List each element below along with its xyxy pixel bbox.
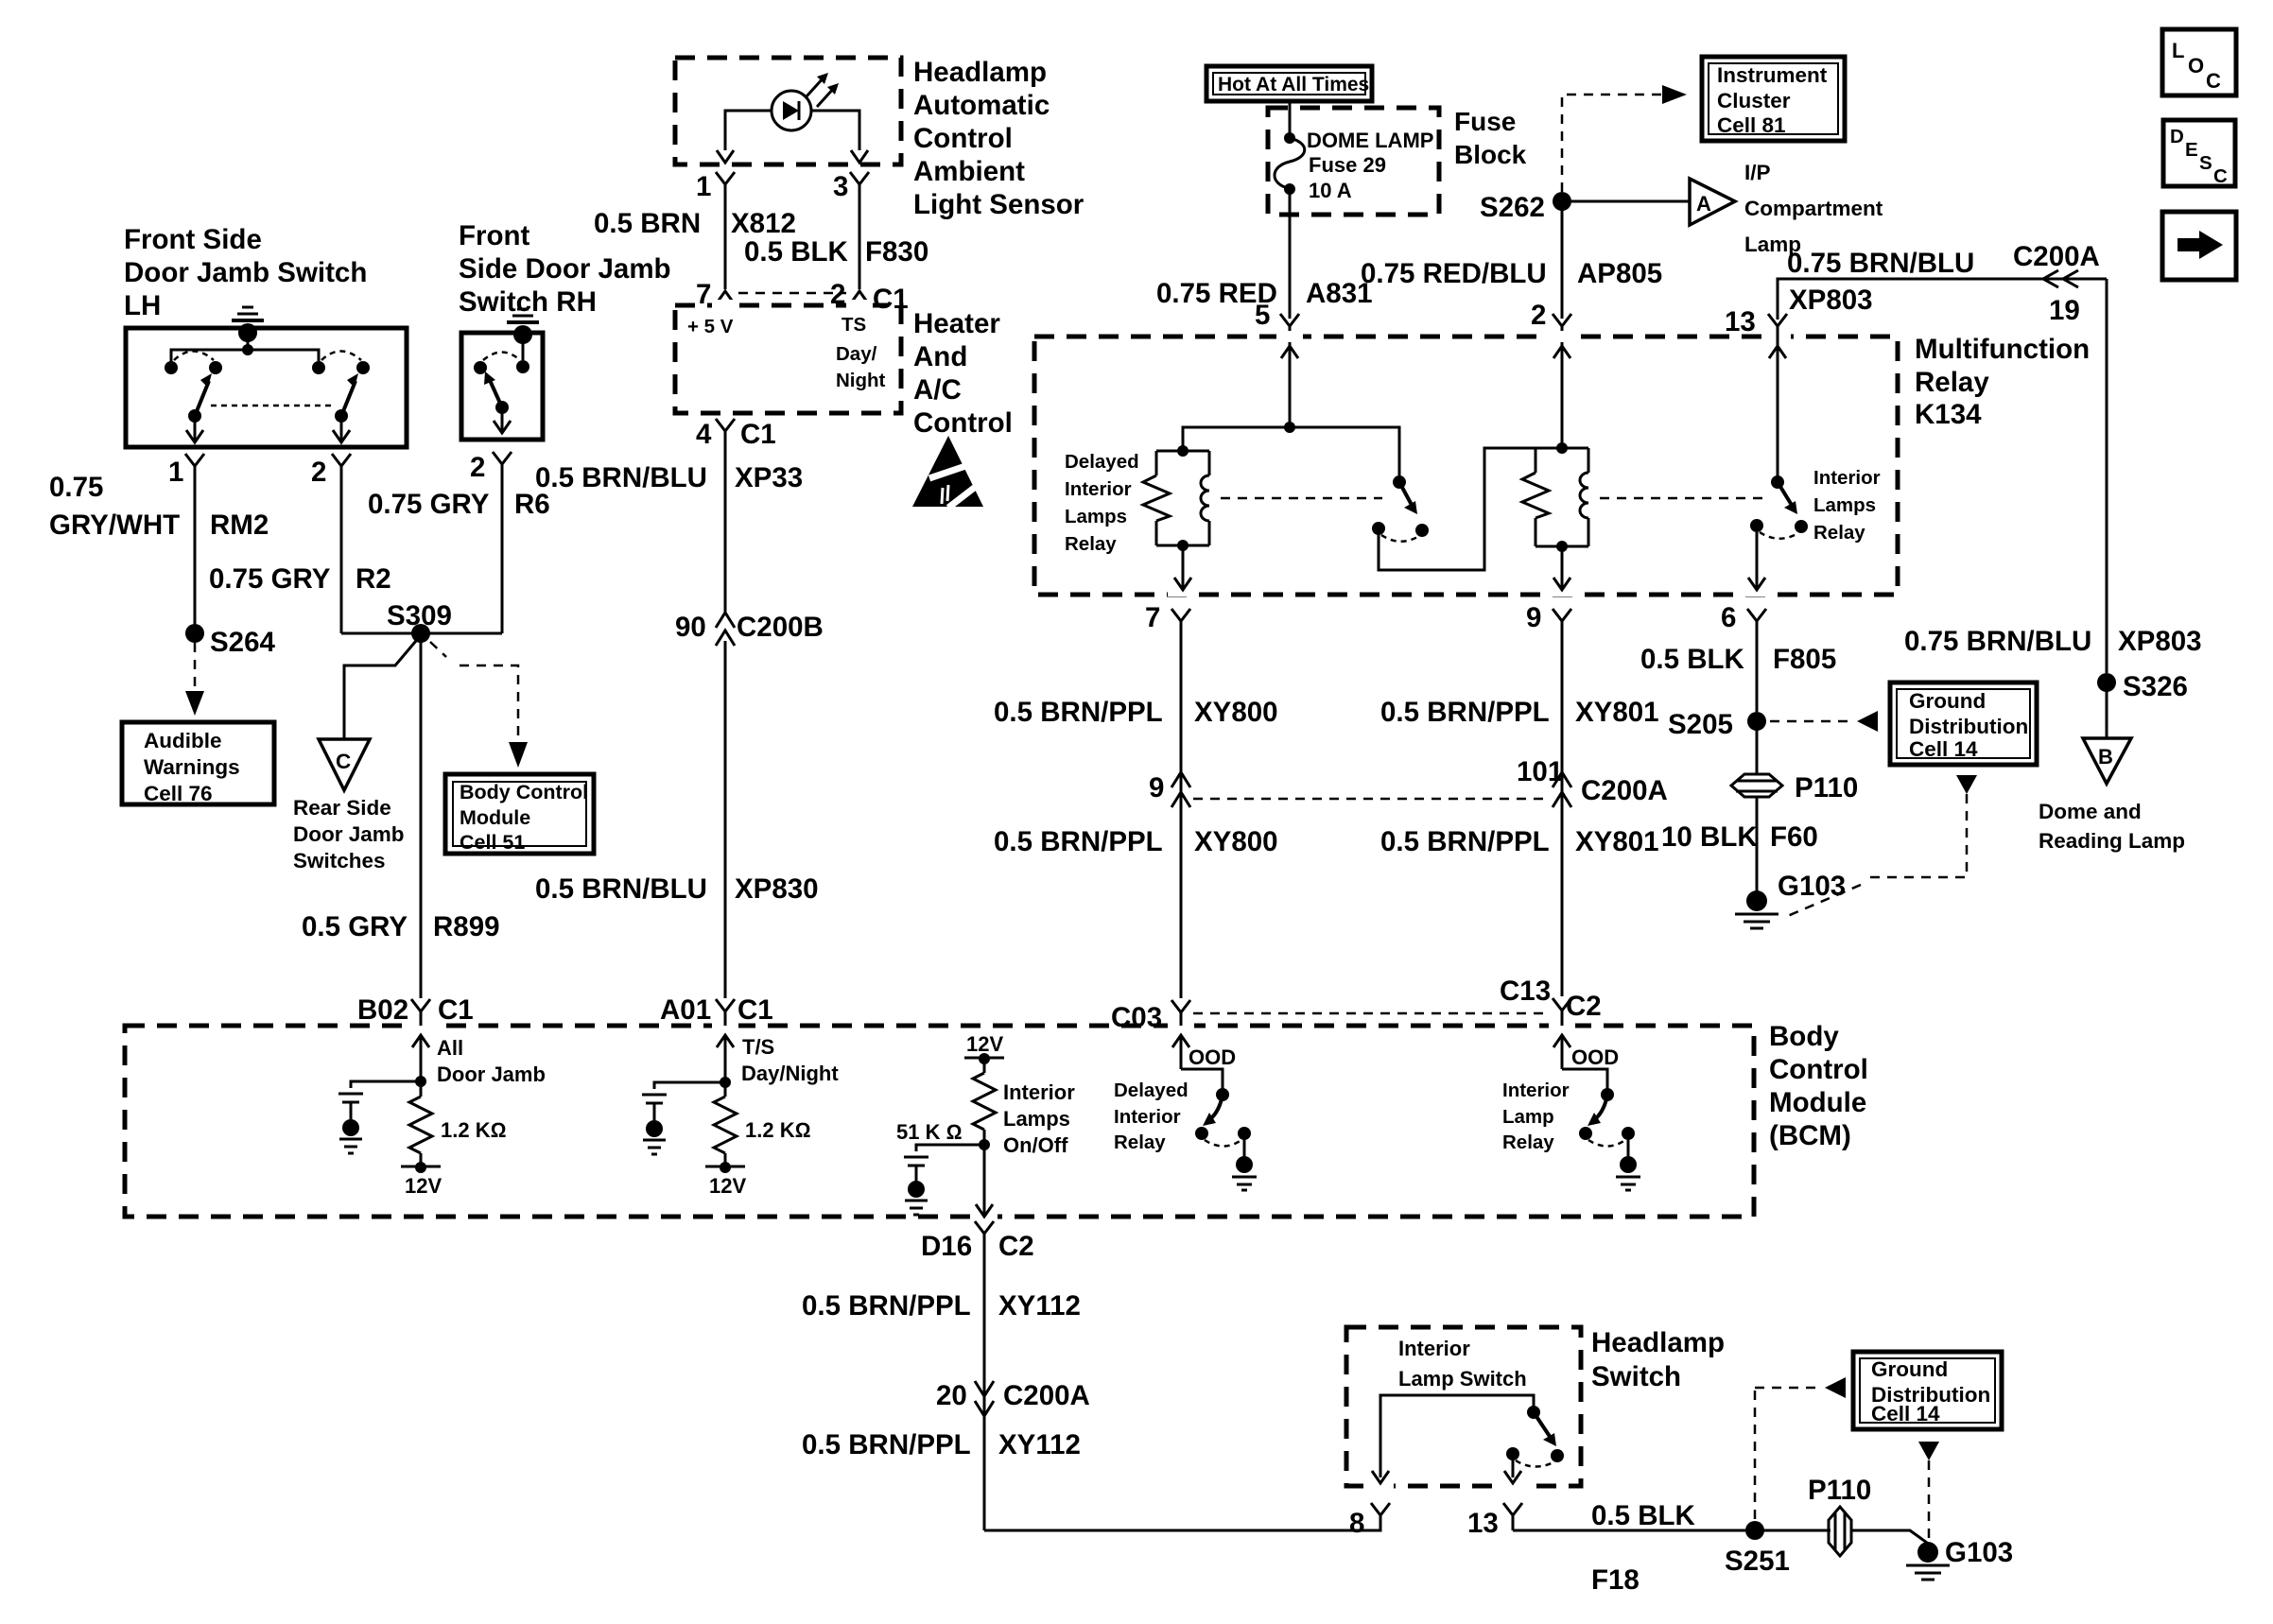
label 0.5 BLK F830 [744,236,928,268]
svg-text:Day/Night: Day/Night [741,1062,839,1085]
svg-text:0.5 BLK: 0.5 BLK [744,236,849,268]
svg-text:S309: S309 [387,600,452,631]
wire F18 pin 13 to S251 [1513,1529,1755,1532]
svg-text:Fuse: Fuse [1454,107,1516,136]
svg-text:Door Jamb: Door Jamb [293,822,405,846]
sensor pin 1 connector [696,171,735,289]
svg-text:Interior: Interior [1813,467,1881,489]
connector C1 dashed divider [738,292,846,295]
svg-text:OOD: OOD [1189,1045,1236,1069]
relay pin 6 connector [1721,602,1766,641]
svg-text:E: E [2185,139,2198,161]
label 0.75 RED A831 [1156,278,1373,309]
label Headlamp Switch [1591,1327,1725,1392]
svg-text:1: 1 [168,457,183,488]
relay pin 5 connector [1255,300,1299,427]
svg-text:G103: G103 [1778,871,1846,902]
svg-text:20: 20 [936,1380,967,1411]
S2 pin 2 connector [470,452,512,486]
svg-text:Compartment: Compartment [1744,197,1883,220]
relay pin 13 connector [1725,306,1787,482]
wire S205 to P110 [1756,721,1759,775]
svg-text:S205: S205 [1668,709,1733,740]
S1 left switch pole [174,352,222,443]
BCM pin C03 connector [1111,1000,1190,1069]
svg-text:A01: A01 [660,994,711,1026]
svg-text:0.75 GRY: 0.75 GRY [368,489,490,520]
svg-text:I/P: I/P [1744,161,1771,184]
component box: Fuse Block [1268,108,1439,215]
coil K1b output arrow to pin 9 [1553,546,1570,590]
svg-text:Light Sensor: Light Sensor [913,189,1084,220]
wire XY801 pin 9 to BCM C13 [1561,641,1564,996]
wire from interior relay switch to pin 6 [1748,532,1765,590]
svg-text:90: 90 [675,612,706,643]
BCM 51K ground branch [904,1145,984,1215]
svg-text:Interior: Interior [1003,1080,1075,1104]
switch S1 box: Front Side Door Jamb Switch LH [126,328,407,447]
fuse DOME LAMP Fuse 29 10A [1275,101,1433,319]
svg-text:0.5 BLK: 0.5 BLK [1640,644,1745,675]
svg-text:Module: Module [1769,1087,1866,1118]
svg-text:Relay: Relay [1065,533,1117,555]
splice S264 [185,624,275,658]
component box: Headlamp Automatic Control Ambient Light Sensor [675,58,901,164]
svg-text:+ 5 V: + 5 V [687,316,734,337]
svg-text:Heater: Heater [913,308,1000,339]
label 0.5 BRN/PPL XY112 row2 [802,1429,1081,1460]
label 0.5 BRN/PPL XY800 row1 [994,697,1278,728]
splice S326 [2097,671,2188,702]
svg-text:Lamps: Lamps [1003,1107,1070,1131]
dashed reference wire from S309 to BCM cell 51 [430,642,528,768]
reference arrow C triangle: Rear Side Door Jamb Switches [293,739,405,872]
svg-text:XP830: XP830 [735,873,819,905]
svg-text:C03: C03 [1111,1002,1162,1033]
label Interior Lamp Switch [1398,1337,1527,1391]
svg-text:LH: LH [124,290,161,321]
svg-text:0.5 BRN/BLU: 0.5 BRN/BLU [535,873,707,905]
svg-text:0.5 BRN/PPL: 0.5 BRN/PPL [994,826,1163,857]
wire P110 to G103 lower [1851,1530,1927,1543]
svg-text:C200A: C200A [1003,1380,1090,1411]
component box: Heater And A/C Control [675,305,901,413]
svg-text:12V: 12V [709,1174,746,1198]
svg-text:10 A: 10 A [1309,179,1352,202]
label Delayed Interior Lamps Relay [1065,451,1139,555]
svg-text:Relay: Relay [1502,1132,1554,1153]
coil K1a output arrow to pin 7 [1174,545,1191,590]
switch S1 label: Front Side Door Jamb Switch LH [124,224,367,321]
label Body Control Module (BCM) [1769,1021,1868,1151]
svg-text:C: C [2206,69,2221,93]
label 0.75 RED/BLU AP805 [1361,258,1662,289]
svg-text:Door Jamb: Door Jamb [437,1063,546,1086]
reference triangle B: Dome and Reading Lamp [2039,738,2185,853]
wire R6 from S2 pin 2 [501,486,504,633]
svg-text:Interior: Interior [1502,1080,1570,1101]
label 0.5 BRN/PPL XY801 row2 [1380,826,1659,857]
switch S2 box: Front Side Door Jamb Switch RH [461,333,543,440]
svg-text:Module: Module [460,806,530,829]
BCM pin D16 connector C2 [921,1221,1034,1262]
label 0.75 BRN/BLU C200A XP803 [1787,241,2100,316]
svg-text:O: O [2188,54,2204,78]
reference box: Instrument Cluster Cell 81 [1702,57,1845,141]
svg-text:Cell 14: Cell 14 [1871,1402,1940,1425]
svg-text:2: 2 [470,452,485,483]
svg-text:Switches: Switches [293,849,386,872]
svg-text:1.2 KΩ: 1.2 KΩ [745,1118,810,1142]
svg-text:G103: G103 [1945,1537,2013,1568]
svg-text:RM2: RM2 [210,510,269,541]
reference box: Ground Distribution Cell 14 upper [1890,682,2037,765]
wire pin5 feed to coil and switch [1183,422,1399,477]
svg-text:OOD: OOD [1571,1045,1619,1069]
wire to rear door jamb switches reference [344,635,421,738]
svg-text:4: 4 [696,419,712,450]
svg-text:0.75 BRN/BLU: 0.75 BRN/BLU [1904,626,2091,657]
wire R2 from S1 pin 2 [340,486,343,633]
wire XP830 down to BCM pin A01 [724,641,727,998]
label 0.5 BRN/PPL XY801 row1 [1380,697,1659,728]
svg-text:F805: F805 [1773,644,1836,675]
svg-text:Fuse 29: Fuse 29 [1309,153,1386,177]
wire F60 P110 to G103 [1756,797,1759,891]
grommet P110 lower [1808,1475,1871,1556]
splice S262 [1480,192,1571,223]
wire S251 to P110 [1755,1529,1831,1532]
label 0.75 GRY R6 [368,489,550,520]
svg-text:Headlamp: Headlamp [1591,1327,1725,1358]
splice S251 [1725,1521,1790,1577]
svg-text:0.5 BRN/BLU: 0.5 BRN/BLU [535,462,707,493]
wire R899 from S309 down to BCM pin B02 [420,633,423,998]
svg-text:51 K Ω: 51 K Ω [896,1120,962,1144]
svg-text:Cell 76: Cell 76 [144,782,213,805]
dashed connector link C200A 9-101 [1193,798,1551,801]
svg-text:C13: C13 [1500,976,1551,1007]
svg-text:Distribution: Distribution [1909,715,2028,738]
wire F805 pin 6 down [1756,641,1759,712]
svg-text:S326: S326 [2123,671,2188,702]
wire XP803 from pin 13 to C200A [1778,279,2107,320]
connector C200B pin 90 [675,612,824,646]
S1 ganged-switch dashed link [211,405,336,407]
svg-text:Instrument: Instrument [1717,63,1828,87]
svg-text:X812: X812 [731,208,796,239]
svg-text:Switch RH: Switch RH [459,286,597,318]
label 0.5 BRN/BLU XP33 [535,462,803,493]
svg-text:Control: Control [913,123,1013,154]
label Interior Lamps Relay [1813,467,1881,544]
svg-text:R2: R2 [356,563,391,595]
svg-text:Control: Control [913,407,1013,439]
svg-text:Night: Night [836,370,886,391]
S1 right switch pole [321,352,370,443]
sensor pin 3 connector [833,171,869,289]
svg-text:C2: C2 [998,1231,1034,1262]
reference box: Audible Warnings Cell 76 [122,722,274,805]
svg-text:Side Door Jamb: Side Door Jamb [459,253,671,285]
BCM output to D16 [976,1145,993,1217]
wire joining pin2 wires at S309 [341,632,502,635]
svg-text:Rear Side: Rear Side [293,796,391,820]
svg-text:Relay: Relay [1915,367,1989,398]
BCM B02 input network [338,1076,426,1153]
dashed reference wire S251 to ground distribution [1755,1377,1846,1519]
svg-text:DOME LAMP: DOME LAMP [1307,129,1433,152]
svg-text:0.5 GRY: 0.5 GRY [302,911,408,942]
svg-text:Ground: Ground [1909,689,1986,713]
heater pin 4 connector and C1 [696,419,776,455]
label 0.75 GRY/WHT RM2 [49,472,269,541]
legend box arrow [2162,212,2236,280]
connector C200A pin 9 chevrons [1149,772,1190,807]
svg-text:XY801: XY801 [1575,826,1659,857]
S1 pin 1 connector [168,454,204,488]
svg-text:C2: C2 [1566,991,1602,1022]
svg-text:0.75 RED/BLU: 0.75 RED/BLU [1361,258,1547,289]
svg-text:Hot At All Times: Hot At All Times [1218,74,1369,95]
svg-text:S264: S264 [210,627,275,658]
svg-text:0.5 BRN/PPL: 0.5 BRN/PPL [1380,826,1550,857]
headlamp switch pin 13 connector [1467,1503,1522,1539]
resistor 1.2 KOhm at A01 [705,1082,810,1198]
svg-text:Relay: Relay [1813,522,1865,544]
svg-text:A: A [1696,192,1711,216]
svg-text:(BCM): (BCM) [1769,1120,1851,1151]
wire XY800 pin 7 to BCM C03 [1180,641,1183,998]
BCM pin A01 connector C1 [660,994,773,1082]
svg-text:5: 5 [1255,300,1270,331]
BCM delayed interior relay switch [1181,1069,1257,1190]
S2 switch pole [474,353,520,434]
svg-text:All: All [437,1036,463,1060]
label 0.5 BLK F805 [1640,644,1836,675]
dashed reference wire S262 to Instrument Cluster [1562,85,1687,192]
svg-text:12V: 12V [966,1032,1003,1056]
svg-text:Day/: Day/ [836,343,877,365]
svg-text:Interior: Interior [1398,1337,1470,1360]
svg-text:9: 9 [1149,772,1164,803]
relay pin 9 connector [1526,602,1571,641]
dashed actuation link interior lamps relay [1600,497,1762,500]
label 0.75 BRN/BLU XP803 right [1904,626,2202,657]
reference box: Body Control Module Cell 51 [445,774,594,854]
svg-text:3: 3 [833,171,848,202]
svg-text:S: S [2199,152,2212,174]
wire XY112 bottom run to headlamp switch pin 8 [984,1526,1380,1530]
connector link C03-C13 dashed [1193,1012,1551,1015]
label 0.5 BLK F18 [1591,1500,1696,1596]
wire XY112 from D16 [983,1248,986,1530]
interior lamps relay switch contact [1750,475,1808,539]
svg-text:Ambient: Ambient [913,156,1025,187]
svg-text:Lamp Switch: Lamp Switch [1398,1367,1527,1391]
svg-text:S251: S251 [1725,1546,1790,1577]
wire XP803 down right side [2106,279,2108,673]
svg-text:Headlamp: Headlamp [913,57,1047,88]
svg-text:Reading Lamp: Reading Lamp [2039,829,2185,853]
svg-text:Cluster: Cluster [1717,89,1791,112]
svg-text:Automatic: Automatic [913,90,1050,121]
relay pin 2 connector [1531,300,1571,448]
svg-text:Body: Body [1769,1021,1839,1052]
svg-text:Control: Control [1769,1054,1868,1085]
legend box LOC [2162,29,2236,95]
ground G103 [1735,871,1846,928]
photodiode sensor [772,73,839,130]
wire from delayed relay switch to interior relay coil top [1379,448,1536,570]
svg-text:Cell 14: Cell 14 [1909,737,1978,761]
legend box DESC [2163,120,2235,187]
svg-text:Lamp: Lamp [1502,1106,1554,1128]
label Multifunction Relay K134 [1915,334,2090,430]
svg-text:Lamps: Lamps [1813,494,1876,516]
wire AP805 from S262 to relay pin 2 [1561,201,1564,319]
label 0.5 BRN X812 [594,208,796,239]
svg-text:Lamps: Lamps [1065,506,1127,527]
svg-text:13: 13 [1467,1508,1499,1539]
reference box: Ground Distribution Cell 14 lower [1853,1352,2002,1429]
svg-text:1: 1 [696,171,711,202]
connector C200A pin 20 chevrons [936,1380,1090,1416]
svg-text:GRY/WHT: GRY/WHT [49,510,180,541]
svg-text:Interior: Interior [1065,478,1132,500]
svg-text:L: L [2172,39,2184,62]
svg-text:0.5 BLK: 0.5 BLK [1591,1500,1696,1531]
svg-text:0.75 GRY: 0.75 GRY [209,563,331,595]
switch S2 label: Front Side Door Jamb Switch RH [459,220,671,318]
svg-text:Delayed: Delayed [1114,1080,1189,1101]
svg-text:T/S: T/S [742,1035,774,1059]
svg-text:0.75: 0.75 [49,472,103,503]
resistor 1.2 KOhm at B02 [401,1081,506,1198]
ground G103 lower [1906,1537,2013,1580]
splice S309 [387,600,452,643]
svg-text:TS: TS [842,314,866,336]
label 0.5 GRY R899 [302,911,500,942]
connector C200A pin 101 chevrons [1517,756,1668,807]
svg-text:2: 2 [1531,300,1546,331]
svg-text:0.75 BRN/BLU: 0.75 BRN/BLU [1787,248,1974,279]
label Delayed Interior Relay [1114,1080,1189,1153]
wire XP33 from heater pin 4 [724,455,727,613]
dashed actuation link delayed relay [1221,497,1382,500]
svg-text:2: 2 [311,457,326,488]
svg-text:S262: S262 [1480,192,1545,223]
svg-text:C1: C1 [438,994,474,1026]
svg-text:Multifunction: Multifunction [1915,334,2090,365]
svg-text:P110: P110 [1808,1475,1871,1506]
heater pin 2 connector and C1 [830,279,909,315]
svg-text:C: C [2213,165,2228,187]
svg-text:XP33: XP33 [735,462,803,493]
headlamp switch pin 8 connector [1349,1503,1390,1539]
svg-text:K134: K134 [1915,399,1982,430]
dashed reference wire below S264 [185,643,204,716]
svg-text:Interior: Interior [1114,1106,1181,1128]
svg-text:XY112: XY112 [998,1429,1081,1460]
label Fuse Block [1454,107,1527,169]
component box: Multifunction Relay K134 [1034,337,1898,595]
svg-text:Relay: Relay [1114,1132,1166,1153]
svg-text:Switch: Switch [1591,1361,1681,1392]
label TS Day/Night [836,314,886,391]
power feed box: Hot At All Times [1206,66,1372,101]
svg-text:Body Control: Body Control [460,781,588,803]
svg-text:And: And [913,341,967,372]
case ground symbol on S1 box top [232,307,264,350]
svg-text:Warnings: Warnings [144,755,240,779]
svg-text:0.5 BRN/PPL: 0.5 BRN/PPL [802,1290,971,1322]
svg-text:XY800: XY800 [1194,826,1278,857]
svg-text:P110: P110 [1795,772,1858,803]
heater pin 7 connector [696,279,735,310]
svg-text:10 BLK: 10 BLK [1661,821,1758,853]
svg-text:0.5 BRN: 0.5 BRN [594,208,701,239]
S1 internal contact bus [165,344,325,374]
splice S205 [1668,709,1766,740]
svg-text:C200A: C200A [1581,775,1668,806]
label 10 BLK F60 [1661,821,1818,853]
svg-text:13: 13 [1725,306,1756,337]
svg-text:C1: C1 [740,419,776,450]
svg-text:8: 8 [1349,1508,1364,1539]
component box: Headlamp Switch [1346,1327,1581,1486]
svg-text:9: 9 [1526,602,1541,633]
svg-text:0.5 BRN/PPL: 0.5 BRN/PPL [994,697,1163,728]
svg-text:Delayed: Delayed [1065,451,1139,473]
svg-text:B: B [2098,745,2113,769]
svg-text:12V: 12V [405,1174,442,1198]
svg-text:Door Jamb Switch: Door Jamb Switch [124,257,367,288]
reference triangle A: I/P Compartment Lamp [1690,161,1883,256]
svg-text:Front Side: Front Side [124,224,262,255]
dashed reference wire ground distribution to G103 [1783,775,1977,918]
ESD sensitive device symbol [912,436,985,508]
label Interior Lamp Relay [1502,1080,1570,1153]
label 0.5 BRN/PPL XY800 row2 [994,826,1278,857]
svg-text:AP805: AP805 [1577,258,1662,289]
sensor internal wires to pins [717,111,868,163]
svg-text:XP803: XP803 [2118,626,2202,657]
svg-text:XY800: XY800 [1194,697,1278,728]
svg-text:1.2 KΩ: 1.2 KΩ [441,1118,506,1142]
interior lamp switch contacts [1372,1395,1564,1483]
grommet P110 [1731,772,1858,803]
svg-text:Cell 81: Cell 81 [1717,113,1786,137]
connector C200A pin 19 chevrons [2043,270,2080,326]
delayed interior lamps relay coil K1a [1143,445,1209,551]
svg-text:A/C: A/C [913,374,962,406]
svg-text:Block: Block [1454,140,1527,169]
svg-text:C200B: C200B [737,612,824,643]
label Heater And A/C Control [913,308,1013,439]
svg-text:Front: Front [459,220,530,251]
label 0.75 GRY R2 [209,563,391,595]
svg-text:XY801: XY801 [1575,697,1659,728]
case ground symbol on S2 box top [507,309,539,373]
svg-text:F18: F18 [1591,1564,1640,1596]
BCM pin B02 connector C1 [357,994,474,1081]
BCM A01 input network [642,1077,731,1154]
svg-text:On/Off: On/Off [1003,1133,1068,1157]
svg-text:B02: B02 [357,994,408,1026]
delayed relay switch contact [1372,475,1429,542]
svg-text:C1: C1 [737,994,773,1026]
